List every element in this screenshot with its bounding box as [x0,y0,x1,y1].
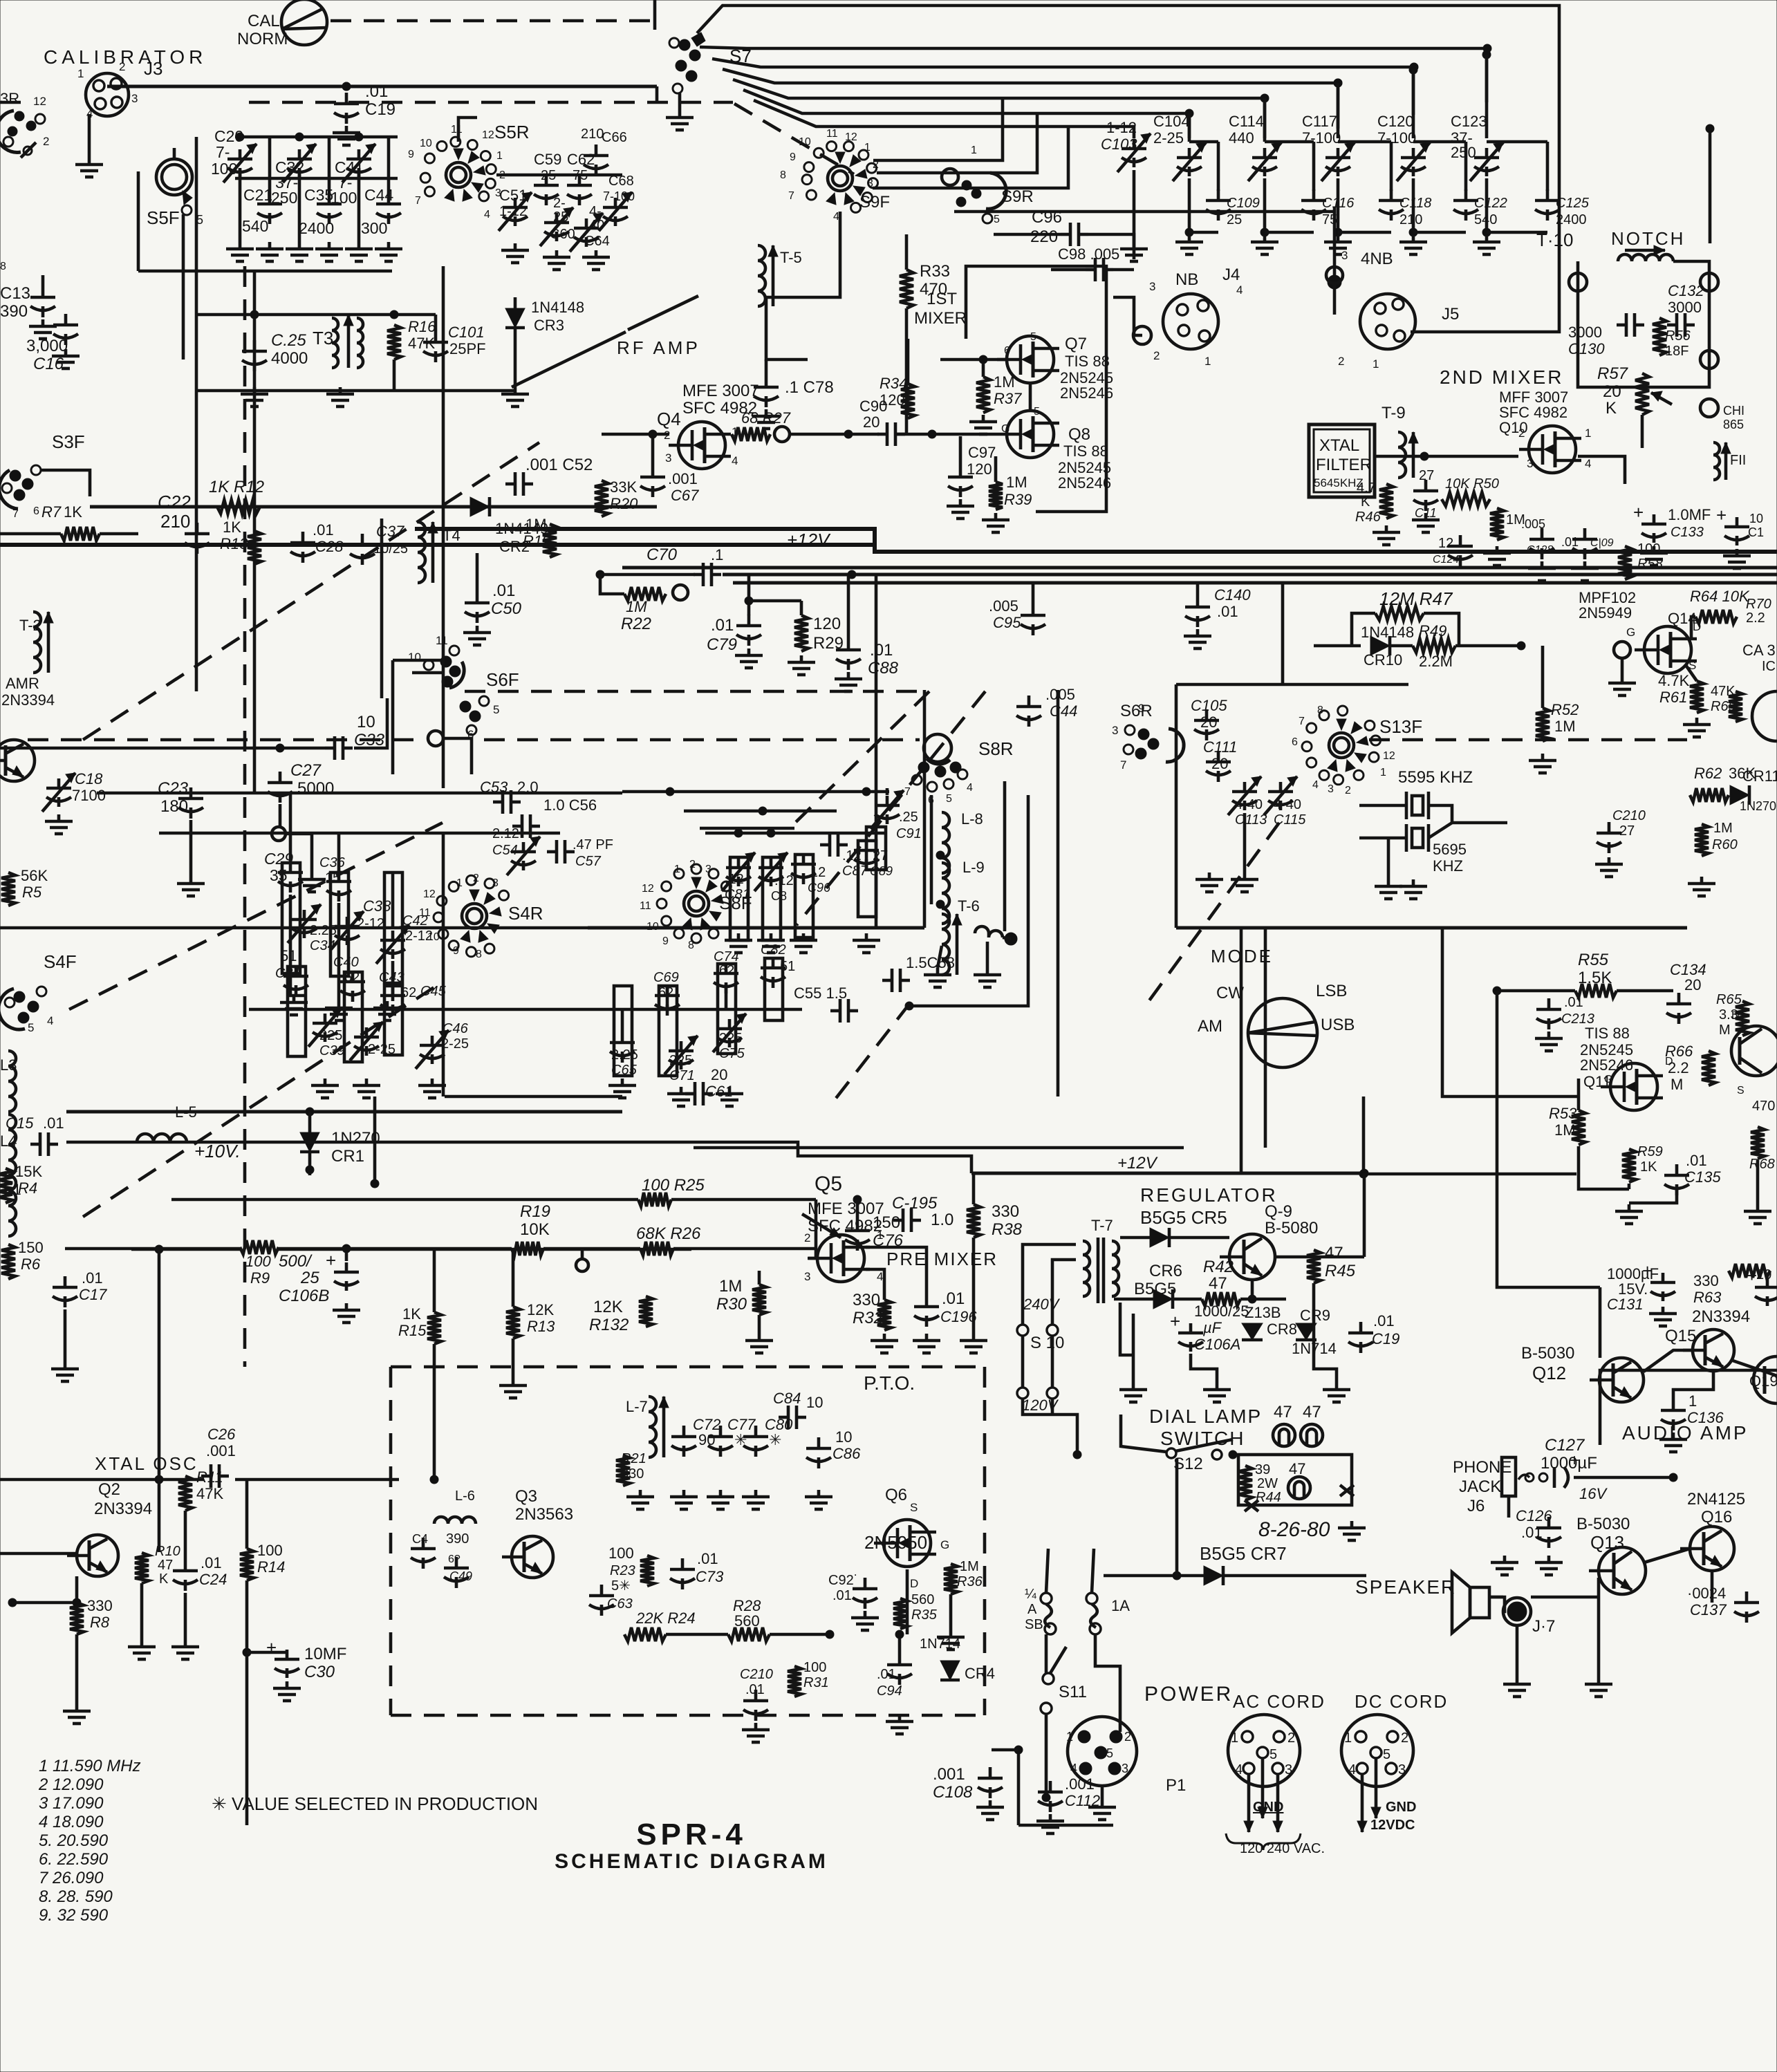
label R36 ref [957,1574,983,1589]
wire Q7 gate wire [940,358,1007,362]
resistor R8 [70,1603,84,1634]
svg-text:3: 3 [705,864,711,875]
label R35 v [911,1592,934,1607]
capacitor C61 [685,1082,713,1105]
label Q10 t2 [1499,404,1567,421]
wire CR1 wires [308,1112,312,1132]
variable capacitor C68 [599,192,632,231]
label C42 v [405,928,433,944]
svg-text:+: + [1633,502,1644,523]
label Q10 p1 [1585,427,1591,440]
label T10 ref [1536,230,1573,250]
label AM [1198,1017,1222,1036]
ground Y gnd1 [1375,879,1402,899]
wire cr7 wire2 [1225,1574,1366,1578]
wire R8 col [75,1576,79,1603]
svg-text:R42: R42 [1203,1258,1234,1276]
svg-text:1N270: 1N270 [1740,799,1776,813]
svg-text:TIS 88: TIS 88 [1065,353,1110,370]
resistor R4 [0,1168,12,1203]
label Q1 t1 [6,675,39,692]
svg-text:G: G [1001,423,1010,435]
q5 arrow [802,1214,841,1238]
wire R55 wire l [1497,989,1575,993]
resistor R32 [877,1300,891,1330]
node r42 n [1248,1295,1256,1303]
svg-text:T-5: T-5 [780,249,802,266]
svg-text:C111: C111 [1203,738,1237,756]
label 3000 C130 a [1568,324,1602,341]
lamp DS1 [1273,1424,1295,1446]
capacitor C95 [1021,604,1045,635]
svg-text:2: 2 [689,859,696,870]
svg-text:5: 5 [1034,406,1040,418]
resistor R28 [728,1627,770,1641]
svg-text:10: 10 [427,931,440,943]
label L-6 ref [455,1488,475,1504]
ground S8F gnd4 [853,933,880,953]
wire bank2 col1 [289,793,292,861]
node C79 node [745,597,753,605]
label C82 ref [761,942,786,958]
wire R7 wires2 [100,532,138,536]
svg-text:3: 3 [1112,724,1118,737]
svg-text:CAL: CAL [248,12,280,30]
ground C104 gnd [1175,235,1203,254]
svg-text:1A: 1A [1111,1597,1130,1614]
svg-text:R19: R19 [520,1202,550,1221]
svg-text:T-9: T-9 [1381,404,1406,422]
svg-text:JACK: JACK [1459,1477,1501,1496]
wire C90 out [895,433,997,436]
svg-text:+12V: +12V [1117,1154,1158,1173]
svg-text:C210: C210 [740,1667,773,1682]
inductor T3 pri [332,318,338,368]
svg-text:C4: C4 [412,1532,428,1546]
svg-text:5: 5 [1383,1747,1390,1762]
node R9 node [155,1245,163,1253]
label C18 v [72,787,106,804]
wire stair2 [700,47,1487,102]
capacitor C28 [290,532,315,563]
wire C120 lower col [1412,178,1415,232]
svg-text:RF AMP: RF AMP [617,337,700,358]
wire T6 gnd wire [938,946,942,968]
svg-text:C63: C63 [607,1596,633,1612]
label R29 ref [813,634,844,653]
label S5R p1 [496,150,503,162]
svg-text:REGULATOR: REGULATOR [1140,1184,1278,1206]
electrolytic capacitor C133 [1633,502,1666,543]
svg-text:12: 12 [33,95,46,108]
wire R14 col2 [245,1580,249,1825]
svg-text:47: 47 [1274,1403,1292,1421]
label S13F p6 [1292,736,1298,748]
transistor Q3 [502,1536,553,1578]
svg-text:1K: 1K [402,1305,421,1323]
variable capacitor C115 [1264,776,1297,815]
label mhz2 [39,1794,104,1813]
svg-text:.001 C52: .001 C52 [525,456,593,474]
wire C23 down [189,820,193,877]
wire C96 wire2 [1088,234,1134,259]
wire S13F linkage (dashed) [1148,823,1279,1002]
wire row +10v [66,1142,971,1173]
capacitor C72 [671,1426,696,1457]
label CR4 ref [965,1665,995,1682]
svg-text:75: 75 [573,168,588,183]
wire S8 box diag (dashed) [797,691,985,925]
label S4F p4 [47,1014,53,1027]
capacitor C78 [754,376,779,407]
label C112 v [1065,1775,1095,1793]
label C86b ref [808,881,831,895]
label C63 v [611,1578,631,1594]
ground C19 gnd [333,126,360,145]
resonator column x408 [282,863,300,973]
label Q16 ref [1701,1508,1732,1527]
wire S9F pin4 drop [766,212,840,297]
label S9F p8 [780,169,786,181]
label P1 p2 [1124,1730,1131,1744]
svg-text:100: 100 [245,1253,271,1270]
wire 33K drop [602,433,669,436]
wire C123 bot jog [1487,231,1547,234]
label C96 ref [1032,208,1062,227]
wire C113 col [1243,813,1247,872]
svg-text:L3: L3 [0,1056,17,1074]
ground S8F gnd1 [725,933,752,953]
svg-text:3: 3 [131,92,138,105]
ground T3 gnd [326,387,354,407]
label C57 ref [575,854,602,869]
label DC p5 [1383,1747,1390,1762]
xtal filter box [1309,424,1375,497]
label C115 v [1274,797,1301,812]
resistor R62 [1690,788,1729,802]
label C43 ref [379,970,404,985]
label R58 v [1637,541,1660,557]
wire det wires [1579,1146,1629,1189]
svg-text:C113: C113 [1235,812,1267,828]
label DC volts [1370,1818,1415,1833]
label R21 v [621,1466,644,1482]
label R22 ref [621,615,651,633]
svg-text:R8: R8 [90,1614,110,1631]
label C60 v [553,196,566,211]
resistor R34 [901,384,915,418]
wire C106B top [345,1249,348,1261]
label C53 v [517,778,539,796]
wire bank2 rail2 [159,832,560,835]
svg-text:12: 12 [1438,536,1453,551]
wire S8 box bottom left [0,926,588,930]
label S8R p7 [904,786,911,798]
capacitor C97 [948,466,973,497]
svg-text:2.25: 2.25 [310,923,337,938]
label R39 value [1006,474,1027,491]
svg-text:R9: R9 [250,1269,270,1287]
label C55 lbl [794,984,847,1002]
ground C108 gnd [976,1800,1004,1820]
svg-text:C67: C67 [671,487,699,504]
label S3R ref [0,90,19,107]
label C97 value [967,460,992,478]
label C57 v [573,837,613,852]
switch MODE [1248,998,1317,1067]
label C75 ref [719,1046,745,1061]
wire C118 top jog [1338,140,1391,144]
wire q12-q15 wire [1644,1350,1693,1372]
label C94 ref [877,1683,902,1699]
wire bank4 rail b [622,1008,802,1011]
wire PTO box right (dashed) [983,1367,987,1715]
wire S8 box diag3 (dashed) [830,1003,910,1106]
label Q4 ref [657,409,681,429]
node L8 bot node [936,851,945,859]
ground R51 gnd [1483,546,1511,566]
capacitor C31 [283,965,308,996]
label C66 ref [602,130,627,145]
label XTAL [1319,436,1359,455]
svg-text:210: 210 [1399,212,1422,227]
label C86 v [835,1428,852,1446]
label S5R ref [494,122,530,142]
svg-text:C87: C87 [842,864,868,879]
wire c94 wire [898,1634,902,1654]
label C91 ref [896,826,922,841]
svg-text:8: 8 [476,949,482,960]
svg-text:C130: C130 [1568,340,1605,357]
svg-text:2-25: 2-25 [441,1036,469,1052]
label R13 v [223,519,241,536]
label S4R p1 [456,877,463,889]
ground bank3 gnd2 [353,1079,380,1098]
capacitor C111 [1206,751,1231,782]
label Q13 t [1576,1515,1630,1533]
wire q13 down [1597,1578,1601,1677]
label S4R p9 [453,945,459,957]
svg-text:225: 225 [719,1031,742,1046]
svg-text:3: 3 [1285,1762,1292,1777]
label C86b v [810,865,826,880]
resonator column x556 [384,872,402,983]
wire bus J3 row [107,85,657,88]
svg-text:1K: 1K [64,503,82,521]
label C48 lbl [412,1532,428,1546]
capacitor C36 [326,870,351,902]
label C135 v [1686,1152,1707,1169]
svg-text:C27: C27 [290,761,322,780]
wire R37 top [982,360,985,377]
label C52 lbl [525,456,593,474]
label C137 ref [1690,1601,1727,1618]
label S9F p11 [826,128,838,140]
node R37 node [979,355,987,364]
svg-text:150: 150 [18,1239,44,1256]
FET Q10 [1519,426,1581,473]
label C32 v1 [275,174,298,192]
label R32 ref [853,1309,883,1327]
label C51 value [499,204,527,219]
svg-text:K: K [1606,399,1617,418]
svg-text:1M: 1M [960,1559,979,1574]
label C106A ref [1194,1336,1240,1353]
wire R33 bot [905,308,909,436]
label C139 v [1756,1267,1771,1282]
label J4 p1 [1204,355,1211,368]
svg-text:+: + [266,1637,277,1658]
label S8F p8 [688,940,694,951]
svg-text:225: 225 [319,1028,342,1043]
svg-text:C17: C17 [79,1286,107,1303]
wire S9F pin wires b [877,113,1037,173]
wire S6F box l [391,660,395,774]
wire R8 col2 [75,1634,79,1704]
wire q15 emitter [1733,1361,1777,1376]
resistor R15 [427,1312,441,1344]
capacitor C108 [978,1767,1003,1798]
wire J3 to ground [88,114,91,158]
resistor R45 [1307,1250,1321,1283]
label Q10 t1 [1499,389,1568,406]
svg-text:10: 10 [357,713,375,731]
variable capacitor C20 [223,144,257,183]
inductor T-5 [758,245,778,306]
node s8 n1 [666,787,674,796]
svg-text:L4: L4 [0,1132,17,1150]
label FII lbl [1730,453,1746,468]
node r15 n [430,1475,438,1484]
capacitor C112 [1038,1781,1063,1812]
variable capacitor C34 [288,904,321,943]
label C80 ref [765,1416,793,1433]
resonator column x1103 [763,857,781,940]
node C114 top node [1260,94,1269,102]
lamp DS2 [1301,1424,1323,1446]
wire long vert x552 [380,519,384,698]
svg-text:R14: R14 [257,1558,285,1576]
label C39 ref [319,1043,345,1058]
svg-text:R22: R22 [621,615,651,633]
label C40 ref [333,955,359,970]
resistor R5 [1,872,15,906]
svg-text:100: 100 [803,1660,826,1675]
svg-text:25: 25 [541,168,556,183]
label Q10 p3 [1527,457,1533,470]
svg-text:4: 4 [1348,1762,1356,1777]
label R53 v [1554,1121,1576,1139]
label Q7 p6 [1004,345,1010,357]
svg-text:10: 10 [835,1428,852,1446]
svg-text:20: 20 [1756,1267,1771,1282]
ground C17 gnd [51,1362,79,1381]
label C45 ref [420,984,447,999]
capacitor C13 [30,286,55,317]
label C21 value [242,217,268,235]
node R14 node [243,1648,251,1656]
svg-text:12: 12 [423,888,436,900]
wire stair6 [743,90,1189,142]
svg-text:+10V.: +10V. [194,1141,241,1161]
svg-text:210: 210 [581,127,604,142]
label CR3 t [531,299,584,316]
label R14 ref [257,1558,285,1576]
svg-text:47K: 47K [1711,684,1736,699]
label C64 v [589,204,602,219]
svg-text:3: 3 [1122,1762,1128,1775]
ground R36 gnd [937,1630,965,1650]
svg-text:330: 330 [87,1597,113,1614]
svg-text:CR8: CR8 [1267,1320,1297,1338]
ground R32 gnd [871,1334,898,1353]
label Q15r D [1731,1010,1740,1022]
node J3 bus node [342,82,351,91]
label C22 lbl [158,492,191,512]
label NB J4 b [1222,265,1240,284]
svg-text:2 12.090: 2 12.090 [38,1775,104,1794]
label CR8 lbl [1245,1304,1281,1321]
ground C94 gnd [886,1715,913,1734]
wire C96 wire [994,233,1061,236]
wire row1806d [673,1247,816,1251]
label C77 ref [727,1416,756,1433]
label R5 v [21,867,48,884]
label R4 ref [18,1179,37,1197]
label R38 v [992,1202,1019,1221]
capacitor C94 [887,1654,912,1685]
wire bankA col C41 [357,169,361,242]
switch S3F wafer [0,465,41,509]
svg-text:S9F: S9F [859,193,890,212]
wire S4F linkage (dashed) [69,823,443,1009]
svg-text:4 18.090: 4 18.090 [39,1813,104,1831]
label C58 lbl [906,954,955,971]
ground R61 gnd [1683,718,1711,737]
node C76 n1 [853,1195,862,1204]
label C114 ref [1229,113,1264,130]
svg-text:56K: 56K [21,867,48,884]
node bank5 n1 [734,829,743,837]
svg-text:.01: .01 [711,616,734,635]
svg-text:1K: 1K [1640,1159,1657,1175]
node s10 low n [1073,1450,1081,1459]
svg-text:2: 2 [1338,355,1344,368]
svg-text:6: 6 [33,505,39,517]
wire spk wire2 [1489,1596,1503,1599]
capacitor C37 [350,534,375,565]
capacitor C213 [1536,998,1561,1029]
wire c127 out [1574,1476,1673,1480]
crystal Y1 [1406,792,1429,819]
wire C122 top jog [1413,140,1466,144]
wire C125 up [1546,142,1550,191]
svg-text:C73: C73 [696,1568,724,1585]
svg-text:C91: C91 [896,826,922,841]
svg-text:R39: R39 [1004,491,1032,508]
label C19b ref [1372,1330,1399,1347]
label Q5 p4 [877,1270,883,1283]
label C128 lbl [1521,517,1545,531]
label R5 ref [22,884,42,901]
wire C116 up [1312,142,1316,191]
wire bank4 col1 [621,1009,624,1032]
capacitor C43 [380,984,405,1016]
label S13F p7 [1299,716,1305,727]
label Q6 S [910,1501,918,1514]
transistor Q15 [1683,1329,1734,1371]
label S9F p1 [864,142,871,153]
